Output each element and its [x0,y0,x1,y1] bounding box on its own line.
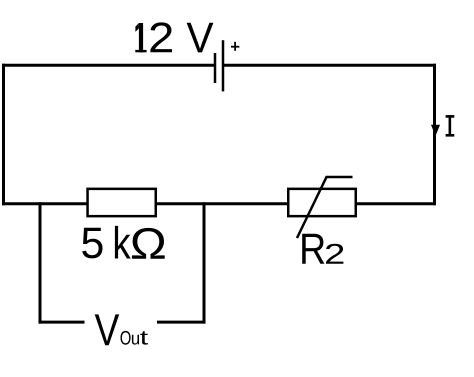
wire middle left segment [2,202,87,205]
wire left vertical [2,64,5,206]
label R2 : subscript 2 [326,244,343,264]
battery B1 positive plate (long) [222,40,225,91]
current arrowhead on right wire [432,125,440,134]
wire middle right segment (R2 to right vertical) [356,202,436,205]
wire Vout loop left vertical [39,202,42,323]
wire top-left (battery negative to left corner) [2,64,215,67]
label 12 V : digit 1 (drawn with foot serif) [135,23,146,52]
label V Out : letter V [95,314,120,345]
label V Out : subscript O [121,331,131,345]
battery B1 negative plate (short) [214,53,217,83]
variable resistor R2 adjustment diagonal with top bar [297,177,353,238]
label 12 V : digit 2 [150,22,172,52]
wire middle centre segment (5k resistor to R2) [156,202,288,205]
wire top-right (battery positive to right corner) [223,64,436,67]
resistor 5 kOhm body [88,189,156,216]
label 12 V : letter V [187,23,214,53]
label V Out : subscript u [132,335,139,345]
label I (serif capital, drawn) [446,115,455,136]
label V Out : subscript t [140,331,148,344]
wire Vout bottom left segment [39,321,85,324]
wire Vout bottom right segment [157,321,206,324]
variable resistor R2 body [288,189,356,216]
battery plus sign [231,46,239,48]
label 5 kOhm : letter k [115,226,131,259]
label 5 kOhm : digit 5 [82,228,102,259]
wire right vertical with current direction [433,64,436,206]
label 5 kOhm : Omega [132,228,165,259]
label R2 : letter R [302,234,324,264]
wire Vout loop right vertical [203,202,206,323]
